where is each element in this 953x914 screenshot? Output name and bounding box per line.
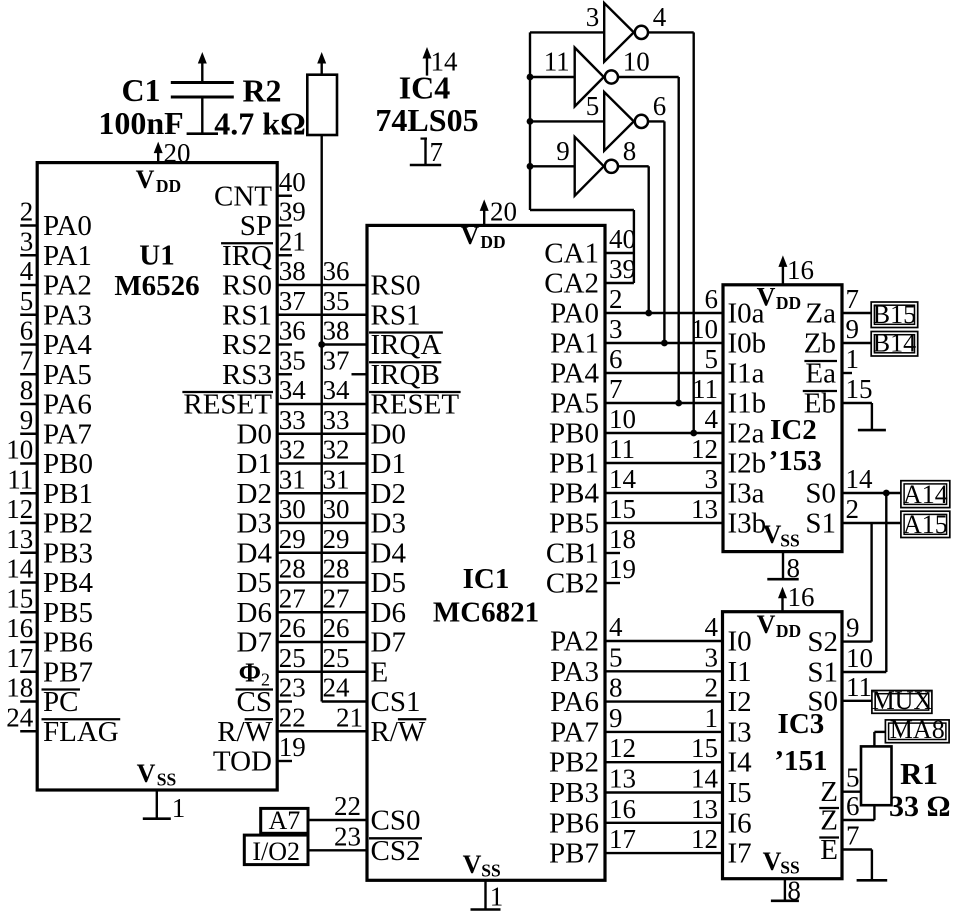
svg-text:PB1: PB1 (43, 478, 93, 510)
svg-text:RS3: RS3 (222, 359, 272, 391)
svg-text:Ea: Ea (805, 358, 836, 390)
svg-text:D6: D6 (371, 597, 406, 629)
svg-text:IC4: IC4 (399, 69, 451, 105)
svg-text:9: 9 (556, 136, 570, 166)
svg-text:33 Ω: 33 Ω (889, 790, 951, 823)
svg-text:26: 26 (323, 613, 350, 643)
svg-text:23: 23 (279, 673, 306, 703)
svg-text:S2: S2 (807, 626, 838, 658)
svg-text:9: 9 (20, 405, 34, 435)
svg-text:PB3: PB3 (43, 537, 93, 569)
svg-text:PB7: PB7 (43, 656, 93, 688)
svg-text:14: 14 (6, 554, 34, 584)
svg-text:I1: I1 (728, 656, 752, 688)
svg-text:U1: U1 (139, 240, 174, 272)
svg-text:8: 8 (787, 876, 801, 906)
svg-text:13: 13 (6, 524, 33, 554)
svg-text:24: 24 (6, 702, 34, 732)
svg-text:PA0: PA0 (43, 210, 92, 242)
svg-text:11: 11 (544, 47, 570, 77)
svg-text:18: 18 (609, 524, 636, 554)
svg-text:12: 12 (609, 733, 636, 763)
svg-text:10: 10 (609, 404, 636, 434)
svg-text:21: 21 (336, 702, 363, 732)
svg-text:15: 15 (691, 733, 718, 763)
svg-text:4: 4 (609, 612, 623, 642)
svg-text:22: 22 (279, 702, 306, 732)
svg-text:7: 7 (20, 345, 34, 375)
svg-text:I2b: I2b (728, 448, 767, 480)
svg-text:PA1: PA1 (43, 240, 92, 272)
svg-text:PA2: PA2 (550, 626, 599, 658)
svg-text:34: 34 (323, 375, 351, 405)
svg-text:23: 23 (334, 821, 361, 851)
svg-text:1: 1 (490, 882, 504, 912)
svg-text:6: 6 (20, 316, 34, 346)
svg-text:35: 35 (323, 286, 350, 316)
svg-text:CS0: CS0 (371, 805, 421, 837)
svg-text:PA4: PA4 (43, 329, 92, 361)
svg-text:13: 13 (691, 794, 718, 824)
svg-text:PA6: PA6 (550, 686, 599, 718)
svg-text:5: 5 (705, 344, 719, 374)
svg-text:28: 28 (279, 554, 306, 584)
svg-text:I6: I6 (728, 807, 752, 839)
svg-text:D4: D4 (371, 537, 407, 569)
svg-text:38: 38 (279, 256, 306, 286)
svg-text:30: 30 (323, 494, 350, 524)
svg-text:10: 10 (846, 643, 873, 673)
svg-text:31: 31 (323, 464, 350, 494)
svg-text:5: 5 (586, 91, 600, 121)
svg-text:6: 6 (653, 91, 667, 121)
svg-text:D7: D7 (371, 627, 406, 659)
svg-text:I0b: I0b (728, 328, 767, 360)
svg-text:7: 7 (846, 284, 860, 314)
svg-text:13: 13 (609, 764, 636, 794)
svg-text:PA7: PA7 (43, 418, 92, 450)
svg-text:5: 5 (20, 286, 34, 316)
svg-text:36: 36 (279, 316, 306, 346)
svg-text:PB7: PB7 (549, 838, 599, 870)
svg-text:9: 9 (609, 703, 623, 733)
svg-text:33: 33 (279, 405, 306, 435)
svg-text:7: 7 (609, 374, 623, 404)
svg-text:CA1: CA1 (544, 238, 599, 270)
svg-text:D7: D7 (237, 627, 272, 659)
svg-text:I2: I2 (728, 686, 752, 718)
svg-text:DD: DD (480, 232, 505, 252)
svg-text:39: 39 (609, 254, 636, 284)
svg-text:SS: SS (780, 531, 799, 551)
svg-text:D2: D2 (371, 478, 406, 510)
svg-text:3: 3 (705, 464, 719, 494)
svg-text:9: 9 (846, 314, 860, 344)
svg-text:8: 8 (787, 553, 801, 583)
svg-text:35: 35 (279, 345, 306, 375)
svg-text:MC6821: MC6821 (433, 597, 539, 629)
svg-text:V: V (463, 850, 482, 879)
svg-text:Zb: Zb (804, 328, 836, 360)
svg-text:36: 36 (323, 256, 350, 286)
svg-text:9: 9 (846, 613, 860, 643)
svg-text:32: 32 (323, 435, 350, 465)
svg-text:5: 5 (609, 642, 623, 672)
svg-text:PB0: PB0 (43, 448, 93, 480)
svg-text:MA8: MA8 (890, 715, 945, 744)
svg-text:11: 11 (846, 672, 872, 702)
svg-text:RESET: RESET (371, 389, 460, 421)
svg-text:11: 11 (692, 374, 718, 404)
svg-text:A7: A7 (268, 806, 300, 835)
svg-text:I2a: I2a (728, 418, 765, 450)
svg-text:SS: SS (157, 770, 176, 790)
svg-text:15: 15 (609, 494, 636, 524)
svg-text:24: 24 (323, 673, 351, 703)
svg-text:PB2: PB2 (43, 508, 93, 540)
svg-text:B14: B14 (873, 329, 916, 358)
svg-text:5: 5 (846, 763, 860, 793)
svg-text:CA2: CA2 (544, 268, 599, 300)
svg-text:PC: PC (43, 686, 78, 718)
svg-text:I0: I0 (728, 626, 752, 658)
svg-text:RS0: RS0 (371, 270, 421, 302)
svg-text:40: 40 (279, 167, 306, 197)
svg-text:Z: Z (820, 805, 838, 837)
svg-text:4: 4 (20, 256, 34, 286)
svg-text:3: 3 (20, 226, 34, 256)
svg-text:PB6: PB6 (549, 807, 599, 839)
svg-text:D1: D1 (237, 448, 272, 480)
svg-text:4: 4 (705, 404, 719, 434)
svg-text:Eb: Eb (804, 388, 836, 420)
svg-text:PA2: PA2 (43, 270, 92, 302)
svg-text:I1b: I1b (728, 388, 767, 420)
svg-text:11: 11 (609, 434, 635, 464)
svg-text:D0: D0 (237, 418, 272, 450)
svg-text:CS: CS (237, 686, 272, 718)
svg-text:25: 25 (279, 643, 306, 673)
svg-text:B15: B15 (873, 300, 916, 329)
svg-text:Z: Z (820, 776, 838, 808)
svg-text:D3: D3 (237, 508, 272, 540)
svg-text:RESET: RESET (183, 389, 272, 421)
svg-text:27: 27 (323, 583, 350, 613)
svg-text:6: 6 (609, 344, 623, 374)
svg-text:IRQA: IRQA (371, 329, 442, 361)
svg-text:2: 2 (846, 494, 860, 524)
svg-text:A15: A15 (903, 510, 948, 539)
svg-text:S1: S1 (807, 657, 838, 689)
svg-text:I4: I4 (728, 747, 753, 779)
svg-text:D6: D6 (237, 597, 272, 629)
svg-text:19: 19 (609, 554, 636, 584)
svg-text:PB2: PB2 (549, 747, 599, 779)
svg-text:37: 37 (279, 286, 306, 316)
svg-text:SS: SS (481, 861, 500, 881)
svg-text:V: V (757, 610, 776, 639)
svg-text:CNT: CNT (214, 180, 272, 212)
svg-text:1: 1 (172, 793, 186, 823)
svg-text:CS1: CS1 (371, 686, 421, 718)
svg-text:29: 29 (323, 524, 350, 554)
svg-text:7: 7 (846, 821, 860, 851)
svg-text:S0: S0 (807, 685, 838, 717)
svg-text:D4: D4 (237, 537, 273, 569)
svg-text:12: 12 (691, 824, 718, 854)
svg-text:RS2: RS2 (222, 329, 272, 361)
svg-text:PB3: PB3 (549, 777, 599, 809)
svg-text:3: 3 (705, 642, 719, 672)
svg-text:100nF: 100nF (98, 105, 183, 141)
svg-text:R1: R1 (900, 756, 938, 791)
svg-text:R2: R2 (242, 73, 281, 109)
svg-text:IRQB: IRQB (371, 359, 440, 391)
svg-text:CS2: CS2 (371, 835, 421, 867)
svg-text:PA3: PA3 (550, 656, 599, 688)
svg-text:R/W: R/W (371, 716, 426, 748)
svg-text:15: 15 (846, 374, 873, 404)
svg-text:7: 7 (430, 137, 444, 167)
svg-text:I3b: I3b (728, 508, 767, 540)
svg-text:DD: DD (776, 293, 801, 313)
svg-text:27: 27 (279, 583, 306, 613)
svg-text:19: 19 (279, 732, 306, 762)
svg-text:10: 10 (691, 314, 718, 344)
svg-text:39: 39 (279, 197, 306, 227)
svg-text:10: 10 (623, 47, 650, 77)
svg-text:I3a: I3a (728, 478, 765, 510)
svg-text:SP: SP (240, 210, 272, 242)
svg-text:I/O2: I/O2 (252, 837, 300, 866)
svg-text:26: 26 (279, 613, 306, 643)
svg-text:12: 12 (691, 434, 718, 464)
svg-text:8: 8 (609, 673, 623, 703)
svg-text:V: V (136, 165, 155, 194)
svg-text:M6526: M6526 (114, 270, 199, 302)
svg-text:PB5: PB5 (43, 597, 93, 629)
svg-text:D0: D0 (371, 418, 406, 450)
svg-text:14: 14 (609, 464, 637, 494)
svg-text:PA4: PA4 (550, 358, 599, 390)
svg-text:MUX: MUX (872, 686, 933, 715)
svg-text:17: 17 (609, 824, 636, 854)
svg-text:I5: I5 (728, 777, 752, 809)
svg-text:21: 21 (279, 226, 306, 256)
svg-text:’151: ’151 (774, 745, 827, 777)
svg-text:22: 22 (334, 791, 361, 821)
svg-text:40: 40 (609, 224, 636, 254)
svg-text:4.7 kΩ: 4.7 kΩ (214, 106, 305, 142)
svg-text:C1: C1 (121, 72, 160, 108)
svg-text:R/W: R/W (217, 716, 272, 748)
svg-text:PA7: PA7 (550, 716, 599, 748)
svg-text:17: 17 (6, 643, 33, 673)
svg-text:Za: Za (805, 298, 836, 330)
svg-text:74LS05: 74LS05 (375, 102, 478, 138)
svg-text:3: 3 (609, 314, 623, 344)
svg-text:E: E (371, 656, 389, 688)
svg-text:RS1: RS1 (371, 299, 421, 331)
svg-text:PA1: PA1 (550, 328, 599, 360)
svg-text:S0: S0 (805, 478, 836, 510)
svg-text:V: V (763, 520, 782, 549)
svg-text:6: 6 (846, 791, 860, 821)
svg-text:2: 2 (609, 284, 623, 314)
svg-text:D5: D5 (371, 567, 406, 599)
svg-text:4: 4 (705, 612, 719, 642)
svg-text:FLAG: FLAG (43, 716, 119, 748)
svg-text:PB0: PB0 (549, 418, 599, 450)
svg-text:18: 18 (6, 673, 33, 703)
svg-text:I1a: I1a (728, 358, 765, 390)
svg-text:28: 28 (323, 554, 350, 584)
svg-text:I3: I3 (728, 716, 752, 748)
svg-text:E: E (820, 834, 838, 866)
svg-text:4: 4 (653, 2, 667, 32)
svg-text:16: 16 (6, 613, 33, 643)
svg-text:12: 12 (6, 494, 33, 524)
svg-text:10: 10 (6, 435, 33, 465)
svg-text:CB2: CB2 (546, 568, 599, 600)
svg-text:V: V (137, 759, 156, 788)
svg-text:PB4: PB4 (43, 567, 93, 599)
svg-text:RS1: RS1 (222, 299, 272, 331)
svg-text:PA5: PA5 (550, 388, 599, 420)
svg-text:PA3: PA3 (43, 299, 92, 331)
svg-text:D3: D3 (371, 508, 406, 540)
svg-text:34: 34 (279, 375, 307, 405)
svg-text:PB6: PB6 (43, 627, 93, 659)
svg-text:16: 16 (609, 794, 636, 824)
svg-text:DD: DD (156, 176, 181, 196)
svg-text:IRQ: IRQ (222, 240, 272, 272)
svg-text:2: 2 (20, 197, 34, 227)
svg-text:PB5: PB5 (549, 508, 599, 540)
svg-text:V: V (757, 282, 776, 311)
svg-text:8: 8 (20, 375, 34, 405)
svg-text:1: 1 (705, 703, 719, 733)
svg-text:16: 16 (788, 582, 815, 612)
svg-text:DD: DD (776, 621, 801, 641)
svg-text:I7: I7 (728, 838, 752, 870)
svg-text:RS0: RS0 (222, 270, 272, 302)
svg-text:33: 33 (323, 405, 350, 435)
svg-text:32: 32 (279, 435, 306, 465)
svg-text:15: 15 (6, 583, 33, 613)
svg-text:14: 14 (691, 764, 719, 794)
svg-text:13: 13 (691, 494, 718, 524)
svg-text:D1: D1 (371, 448, 406, 480)
svg-text:PA0: PA0 (550, 298, 599, 330)
svg-text:11: 11 (7, 464, 33, 494)
svg-text:PB1: PB1 (549, 448, 599, 480)
svg-text:3: 3 (586, 2, 600, 32)
svg-text:D5: D5 (237, 567, 272, 599)
svg-text:20: 20 (164, 138, 191, 168)
svg-text:TOD: TOD (213, 746, 272, 778)
svg-text:8: 8 (623, 136, 637, 166)
svg-text:30: 30 (279, 494, 306, 524)
svg-text:16: 16 (787, 255, 814, 285)
svg-text:37: 37 (323, 345, 350, 375)
svg-text:29: 29 (279, 524, 306, 554)
svg-text:IC1: IC1 (463, 563, 510, 595)
svg-text:25: 25 (323, 643, 350, 673)
svg-text:CB1: CB1 (546, 538, 599, 570)
svg-text:38: 38 (323, 316, 350, 346)
svg-text:A14: A14 (903, 480, 948, 509)
svg-text:PA6: PA6 (43, 389, 92, 421)
svg-text:1: 1 (846, 344, 860, 374)
svg-text:V: V (461, 221, 480, 250)
svg-text:S1: S1 (805, 508, 836, 540)
svg-text:14: 14 (846, 464, 874, 494)
svg-text:PA5: PA5 (43, 359, 92, 391)
svg-text:6: 6 (705, 284, 719, 314)
svg-text:2: 2 (705, 673, 719, 703)
svg-text:20: 20 (490, 196, 517, 226)
svg-text:V: V (763, 847, 782, 876)
svg-text:31: 31 (279, 464, 306, 494)
svg-text:PB4: PB4 (549, 478, 599, 510)
svg-text:’153: ’153 (769, 445, 822, 477)
svg-text:D2: D2 (237, 478, 272, 510)
